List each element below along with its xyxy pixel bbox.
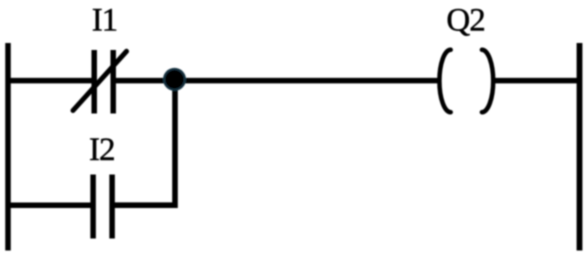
- svg-text:Q2: Q2: [446, 3, 484, 39]
- svg-text:I2: I2: [89, 132, 115, 168]
- svg-text:I1: I1: [92, 3, 118, 39]
